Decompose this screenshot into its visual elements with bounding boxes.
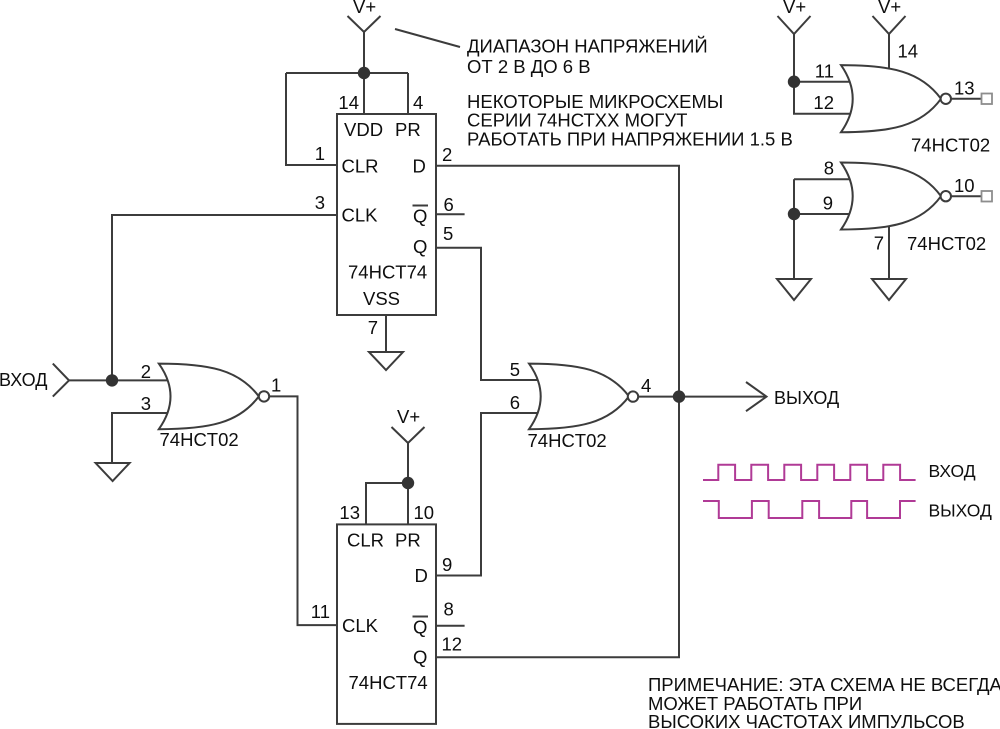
wire annotation leader [395,29,460,47]
wire NOR U3 pin6 to U4 D pin9 [436,413,542,576]
ground TR left [777,279,811,300]
svg-text:7: 7 [368,317,378,338]
svg-text:PR: PR [395,119,421,140]
NOR gate U6 74HCT02 bottom-right [841,163,941,230]
svg-text:6: 6 [444,194,454,215]
wire pin2 D to output node [436,166,679,658]
junction node TR gate2 pin9 [788,208,800,220]
svg-text:1: 1 [271,375,281,396]
svg-text:14: 14 [898,41,919,62]
svg-text:3: 3 [315,192,325,213]
svg-text:13: 13 [339,502,360,523]
svg-text:12: 12 [442,634,463,655]
svg-text:12: 12 [813,92,834,113]
NOR gate U2 74HCT02 [159,364,259,430]
svg-text:ВХОД: ВХОД [0,370,47,390]
svg-text:3: 3 [141,393,151,414]
svg-text:8: 8 [824,158,834,179]
V+ symbol top [348,16,381,32]
wire TR gate2 input ground drop [793,179,795,279]
svg-text:14: 14 [338,92,359,113]
svg-text:9: 9 [823,193,833,214]
svg-text:2: 2 [141,361,151,382]
wire pin3 CLK to input node [112,215,337,380]
svg-text:D: D [415,565,428,586]
svg-text:74HCT74: 74HCT74 [349,672,428,693]
label U1 Qbar [413,206,429,227]
wire pin14 drop [363,73,365,115]
label U4 Qbar [413,617,429,638]
note voltage range [467,36,708,78]
terminal square pin13 [982,94,993,105]
svg-text:ВХОД: ВХОД [929,461,976,481]
svg-text:ПРИМЕЧАНИЕ: ЭТА СХЕМА НЕ ВСЕГД: ПРИМЕЧАНИЕ: ЭТА СХЕМА НЕ ВСЕГДА [648,674,1000,695]
svg-text:СЕРИИ 74НСТХХ МОГУТ: СЕРИИ 74НСТХХ МОГУТ [467,110,687,131]
svg-text:ВЫСОКИХ ЧАСТОТАХ ИМПУЛЬСОВ: ВЫСОКИХ ЧАСТОТАХ ИМПУЛЬСОВ [648,711,965,729]
NOR gate U3 74HCT02 [529,364,629,430]
svg-text:РАБОТАТЬ ПРИ НАПРЯЖЕНИИ 1.5 В: РАБОТАТЬ ПРИ НАПРЯЖЕНИИ 1.5 В [467,129,793,150]
svg-text:V+: V+ [878,0,901,17]
wire TR gate2 pin8 [794,178,856,180]
svg-text:74HCT74: 74HCT74 [348,262,427,283]
IC U1 74HCT74 box [337,114,436,315]
wire pin5 Q to NOR U3 pin5 [436,248,542,380]
note some chips [467,91,793,150]
svg-text:2: 2 [442,144,452,165]
svg-text:4: 4 [641,375,651,396]
bubble NOR U2 output [259,391,269,401]
svg-text:9: 9 [442,554,452,575]
wire V+ mid stem [407,443,409,483]
wire TR V+ right stem pin14 [888,34,890,72]
svg-text:74HCT02: 74HCT02 [911,135,990,156]
V+ symbol mid [392,427,425,443]
wire pin1 CLR branch [286,73,337,165]
V+ symbol TR left [778,16,811,34]
V+ symbol TR right [873,16,906,34]
svg-text:D: D [413,156,426,177]
junction node TR left [788,76,800,88]
ground under U2 pin3 [96,463,130,481]
IC U4 74HCT74 box [337,524,436,724]
svg-text:CLR: CLR [342,156,379,177]
ground under U1 pin7 [369,352,403,370]
svg-text:VSS: VSS [363,288,400,309]
svg-text:ОТ 2 В ДО 6 В: ОТ 2 В ДО 6 В [467,56,591,77]
NOR gate U5 74HCT02 top-right [841,65,941,132]
svg-text:V+: V+ [783,0,806,17]
junction node input [106,374,118,386]
svg-text:V+: V+ [397,406,420,427]
svg-text:74HCT02: 74HCT02 [160,429,239,450]
terminal square pin10 [982,191,993,202]
wire TR gate1 pin12 [794,82,856,114]
svg-text:7: 7 [874,233,884,254]
wire NOR U2 output to U4 CLK pin11 [269,396,337,625]
wire U4 pin8 stub [436,625,465,627]
wire TR gate2 pin9 [794,213,856,215]
svg-text:PR: PR [395,530,421,551]
bubble NOR U3 output [628,391,638,401]
wire TR gate2 pin7 ground drop [888,224,890,279]
wire U4 pin10 drop [407,483,409,525]
svg-text:1: 1 [315,143,325,164]
svg-text:8: 8 [444,599,454,620]
wire VDD rail horizontal [286,72,408,74]
junction node V+ mid [402,477,414,489]
svg-text:13: 13 [954,78,975,99]
wire NOR U2 pin3 ground L [112,413,172,463]
input arrow ВХОД [53,364,69,397]
wire pin7 VSS drop [385,315,387,352]
svg-text:ВЫХОД: ВЫХОД [929,501,992,521]
note bottom [648,674,1000,729]
waveform output [703,501,916,518]
wire U4 pin13 branch [366,483,408,525]
bubble NOR U5 output [941,94,951,104]
junction node VDD top [358,67,370,79]
svg-text:6: 6 [510,392,520,413]
wire NOR U3 output to arrow [637,396,766,398]
svg-text:ДИАПАЗОН НАПРЯЖЕНИЙ: ДИАПАЗОН НАПРЯЖЕНИЙ [467,36,708,57]
svg-text:Q: Q [413,647,427,668]
svg-text:Q: Q [413,617,427,638]
svg-text:CLK: CLK [342,615,379,636]
bubble NOR U6 output [941,191,951,201]
wire TR gate1 pin11 [794,81,856,83]
svg-text:ВЫХОД: ВЫХОД [774,388,839,408]
svg-text:CLK: CLK [342,205,379,226]
wire TR gate2 output to square [950,195,982,197]
svg-text:74HCT02: 74HCT02 [528,430,607,451]
svg-text:Q: Q [413,236,427,257]
svg-text:11: 11 [815,61,834,82]
waveform input [703,465,916,480]
junction node output [673,390,685,402]
svg-text:5: 5 [510,359,520,380]
wire V+ stem to junction [363,32,365,73]
wire pin4 drop [407,73,409,115]
svg-text:V+: V+ [353,0,376,17]
ground TR right [872,279,906,300]
svg-text:Q: Q [413,206,427,227]
svg-text:10: 10 [414,502,435,523]
svg-text:11: 11 [311,601,330,622]
output arrow ВЫХОД [746,382,767,411]
svg-text:4: 4 [413,92,423,113]
svg-text:CLR: CLR [347,530,384,551]
wire pin6 Qbar stub [436,213,465,215]
wire TR V+ left stem [793,34,795,82]
svg-text:5: 5 [443,223,453,244]
wire TR gate1 output to square [950,98,982,100]
svg-text:74HCT02: 74HCT02 [907,233,986,254]
svg-text:10: 10 [954,175,975,196]
wire input to NOR U2 pin2 [69,379,172,381]
svg-text:VDD: VDD [344,119,383,140]
